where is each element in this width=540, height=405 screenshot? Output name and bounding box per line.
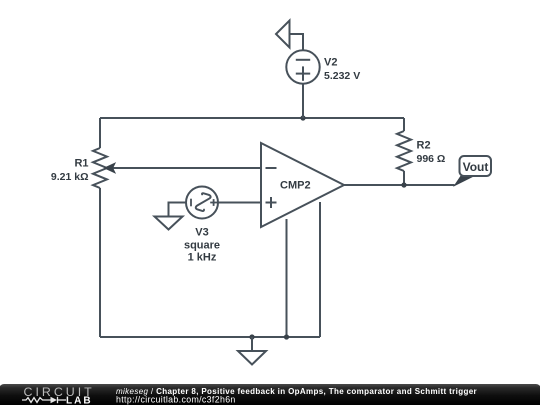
svg-text:square: square bbox=[184, 239, 220, 251]
svg-text:1 kHz: 1 kHz bbox=[188, 252, 217, 264]
node junction pin A / bottom rail bbox=[284, 334, 289, 339]
wire V3 left lead to ground bbox=[169, 203, 187, 217]
wire R2 bottom lead bbox=[403, 171, 405, 185]
svg-text:996 Ω: 996 Ω bbox=[417, 153, 446, 165]
node junction V2 / top rail bbox=[300, 115, 305, 120]
svg-text:LAB: LAB bbox=[66, 396, 93, 405]
wire comparator power pin B bbox=[319, 202, 321, 337]
Vout flag pointer bbox=[455, 176, 474, 186]
Vout flag box bbox=[460, 156, 492, 176]
wire bottom rail bbox=[100, 336, 320, 338]
svg-text:5.232 V: 5.232 V bbox=[324, 70, 360, 82]
logo diode bbox=[51, 397, 58, 403]
wire comparator power pin A bbox=[286, 219, 288, 337]
node junction ground / bottom rail bbox=[249, 334, 254, 339]
ground at V3 bbox=[155, 217, 183, 230]
potentiometer R1 zigzag bbox=[93, 148, 107, 188]
svg-text:9.21 kΩ: 9.21 kΩ bbox=[51, 171, 89, 183]
svg-text:CMP2: CMP2 bbox=[280, 180, 311, 192]
wire V2 top to flag bbox=[290, 34, 304, 51]
wire ground stub bbox=[251, 337, 253, 351]
node junction R2 / output bbox=[401, 182, 406, 187]
logo resistor zigzag bbox=[22, 398, 51, 403]
svg-text:R1: R1 bbox=[74, 158, 88, 170]
svg-text:http://circuitlab.com/c3f2h6n: http://circuitlab.com/c3f2h6n bbox=[116, 394, 236, 404]
voltage source V2 bbox=[286, 50, 319, 83]
ground bottom bbox=[238, 351, 266, 365]
wire V3 to comparator plus input bbox=[218, 202, 261, 204]
op-amp comparator CMP2 bbox=[261, 143, 344, 227]
wire top rail bbox=[100, 117, 404, 119]
ground (left-pointing) at V2 top bbox=[276, 21, 290, 48]
svg-text:V2: V2 bbox=[324, 57, 337, 69]
R1 wiper arrowhead bbox=[105, 163, 115, 173]
svg-text:R2: R2 bbox=[417, 140, 431, 152]
svg-text:Vout: Vout bbox=[463, 160, 489, 174]
wire R1 top lead bbox=[99, 118, 101, 148]
footer bar bbox=[0, 384, 540, 405]
wire R2 top lead bbox=[403, 118, 405, 131]
wire V2 bottom lead bbox=[302, 84, 304, 119]
resistor R2 zigzag bbox=[397, 131, 411, 171]
wire wiper to comparator minus input bbox=[113, 167, 261, 169]
wire comparator output bbox=[344, 184, 455, 186]
square wave source V3 bbox=[186, 187, 218, 219]
svg-text:V3: V3 bbox=[195, 227, 208, 239]
wire R1 bottom / left vertical bbox=[99, 188, 101, 337]
